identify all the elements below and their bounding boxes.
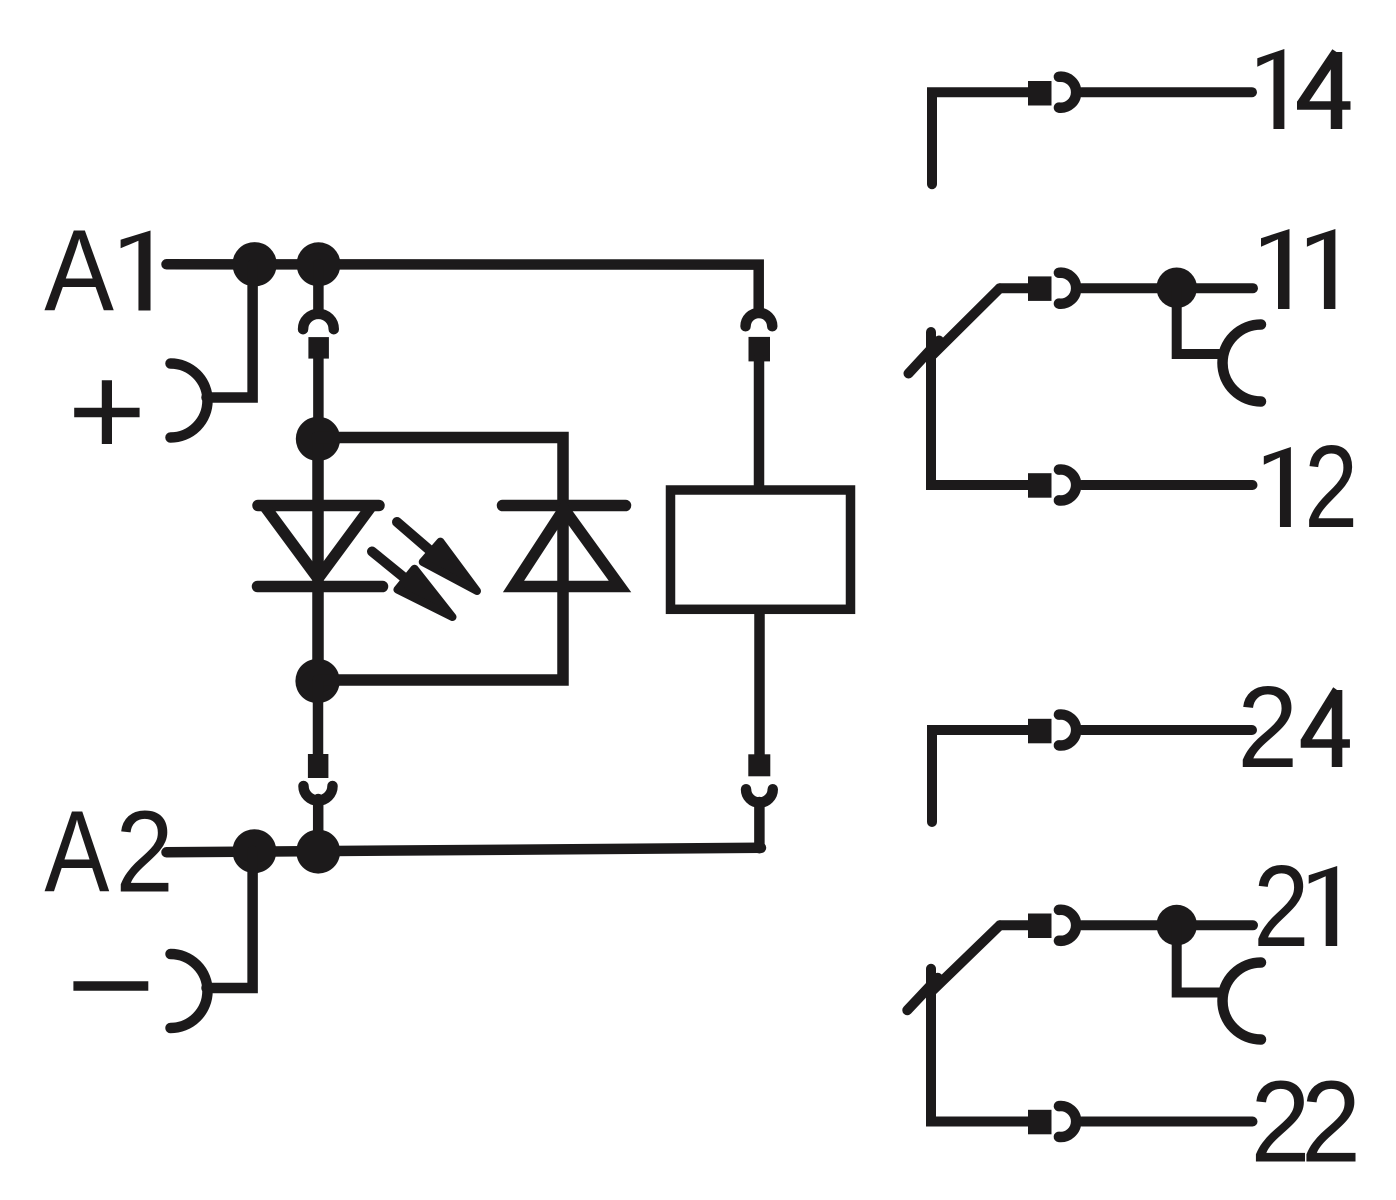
LED light emission arrow 2 [372, 552, 406, 580]
wire: common vertical to NC contact [931, 332, 1029, 485]
wire: NO contact branch (to 24) [932, 730, 1029, 822]
clamp spring contact at 21 [1223, 963, 1262, 1040]
junction dot: LED cathode node [295, 659, 339, 703]
svg-text:2: 2 [1253, 841, 1309, 971]
plug-in pin contact 22 (NC) [1028, 1110, 1052, 1135]
plug-in connection socket (LED branch, bottom) [304, 786, 333, 801]
wire: socket to A2 rail [313, 799, 324, 852]
junction dot: A1 rail / LED branch [297, 242, 341, 286]
junction dot: A2 rail / LED branch [296, 830, 340, 874]
wire: coil bottom to plug pin [754, 612, 765, 756]
plug-in socket contact 21 [1059, 910, 1076, 941]
wire: socket to A2 rail corner [754, 802, 765, 848]
wire: LED cathode node down to plug pin [313, 681, 324, 755]
plug-in connection pin (LED branch, top) [308, 337, 329, 359]
svg-text:2: 2 [1301, 1056, 1361, 1187]
junction dot: LED anode node [296, 417, 340, 461]
svg-text:A: A [44, 206, 114, 335]
wire: contact 14 to label [1082, 87, 1253, 97]
plug-in socket contact 22 [1059, 1106, 1076, 1137]
plug-in connection socket (LED branch, top) [303, 314, 334, 329]
wire: LED branch stub below junction [313, 264, 324, 311]
junction dot: A2 rail / minus clamp branch [232, 829, 276, 873]
terminal label A2 [44, 786, 173, 916]
svg-text:2: 2 [1304, 421, 1358, 552]
wire: common vertical to NC contact [931, 969, 1029, 1122]
plug-in pin contact 11 (common) [1028, 276, 1052, 301]
plug-in socket contact 11 [1059, 273, 1076, 304]
relay coil K1 [671, 490, 851, 609]
terminal label 24 [1237, 662, 1350, 792]
plug-in pin contact 24 [1028, 719, 1052, 744]
plug-in connection pin (LED branch, bottom) [308, 754, 329, 778]
wire: freewheeling diode branch (top/right/bottom) [317, 438, 563, 681]
plug-in socket contact 24 [1059, 715, 1076, 746]
wire: A2 bottom rail [167, 848, 762, 853]
plug-in socket contact 12 [1059, 470, 1076, 501]
LED light emission arrow 1 [397, 522, 432, 552]
wire: 11 node to clamp [1177, 288, 1219, 354]
wire: pin to LED anode node [313, 357, 324, 441]
terminal label 14 [1257, 49, 1350, 129]
wire: down from A2 junction to minus clamp [207, 851, 253, 988]
wire: vertical through LED [312, 439, 324, 681]
terminal label A1 [44, 206, 150, 335]
junction dot contact 11 [1156, 268, 1197, 309]
polarity label - (minus) [73, 981, 148, 991]
wire: NO contact branch (to 14) [932, 92, 1029, 184]
moving contact lever (common of 11) [1000, 283, 1029, 293]
clamp spring contact at + feed [171, 364, 208, 438]
plug-in pin contact 21 (common) [1028, 914, 1052, 939]
plug-in connection pin (coil feed, top) [749, 337, 771, 362]
plug-in connection socket (coil feed, top) [746, 313, 773, 326]
clamp spring contact at minus feed [171, 954, 208, 1028]
plug-in socket contact 14 [1059, 77, 1076, 108]
LED indicator diode: triangle [266, 508, 370, 579]
wire: contact 24 to label [1082, 725, 1253, 735]
terminal label 12 [1264, 421, 1358, 552]
LED indicator diode: cathode bar [258, 581, 383, 593]
junction dot: A1 rail / + clamp branch [232, 242, 276, 286]
polarity label + (plus) [74, 380, 139, 444]
wire: 21 node to clamp [1177, 925, 1219, 992]
svg-text:A: A [44, 786, 109, 916]
wire: contact 12 to label [1082, 480, 1253, 490]
plug-in pin contact 14 [1028, 81, 1052, 106]
lever pivot tick [909, 341, 940, 374]
wire: contact 22 to label [1082, 1117, 1253, 1127]
lever pivot tick [907, 978, 938, 1010]
plug-in pin contact 12 (NC) [1028, 473, 1052, 498]
clamp spring contact at 11 [1223, 325, 1262, 402]
wire: pin to coil top [754, 358, 765, 487]
wire: contact 21 to label [1082, 920, 1254, 930]
freewheeling diode: cathode bar [503, 500, 626, 512]
plug-in connection socket (coil return, bottom) [746, 789, 773, 802]
LED indicator diode: anode side line [258, 500, 379, 512]
junction dot contact 21 [1156, 905, 1197, 946]
wire: A1 top rail to coil branch [167, 264, 759, 310]
plug-in connection pin (coil return, bottom) [748, 754, 770, 776]
wire: contact 11 to label [1082, 283, 1254, 293]
freewheeling diode: triangle [514, 509, 621, 587]
moving contact lever (common of 21) [1000, 920, 1029, 930]
terminal label 21 [1253, 841, 1337, 971]
svg-text:2: 2 [1237, 662, 1298, 792]
terminal label 22 [1250, 1056, 1360, 1187]
terminal label 11 [1261, 229, 1335, 309]
wire: down from A1 junction to + clamp [207, 264, 253, 397]
